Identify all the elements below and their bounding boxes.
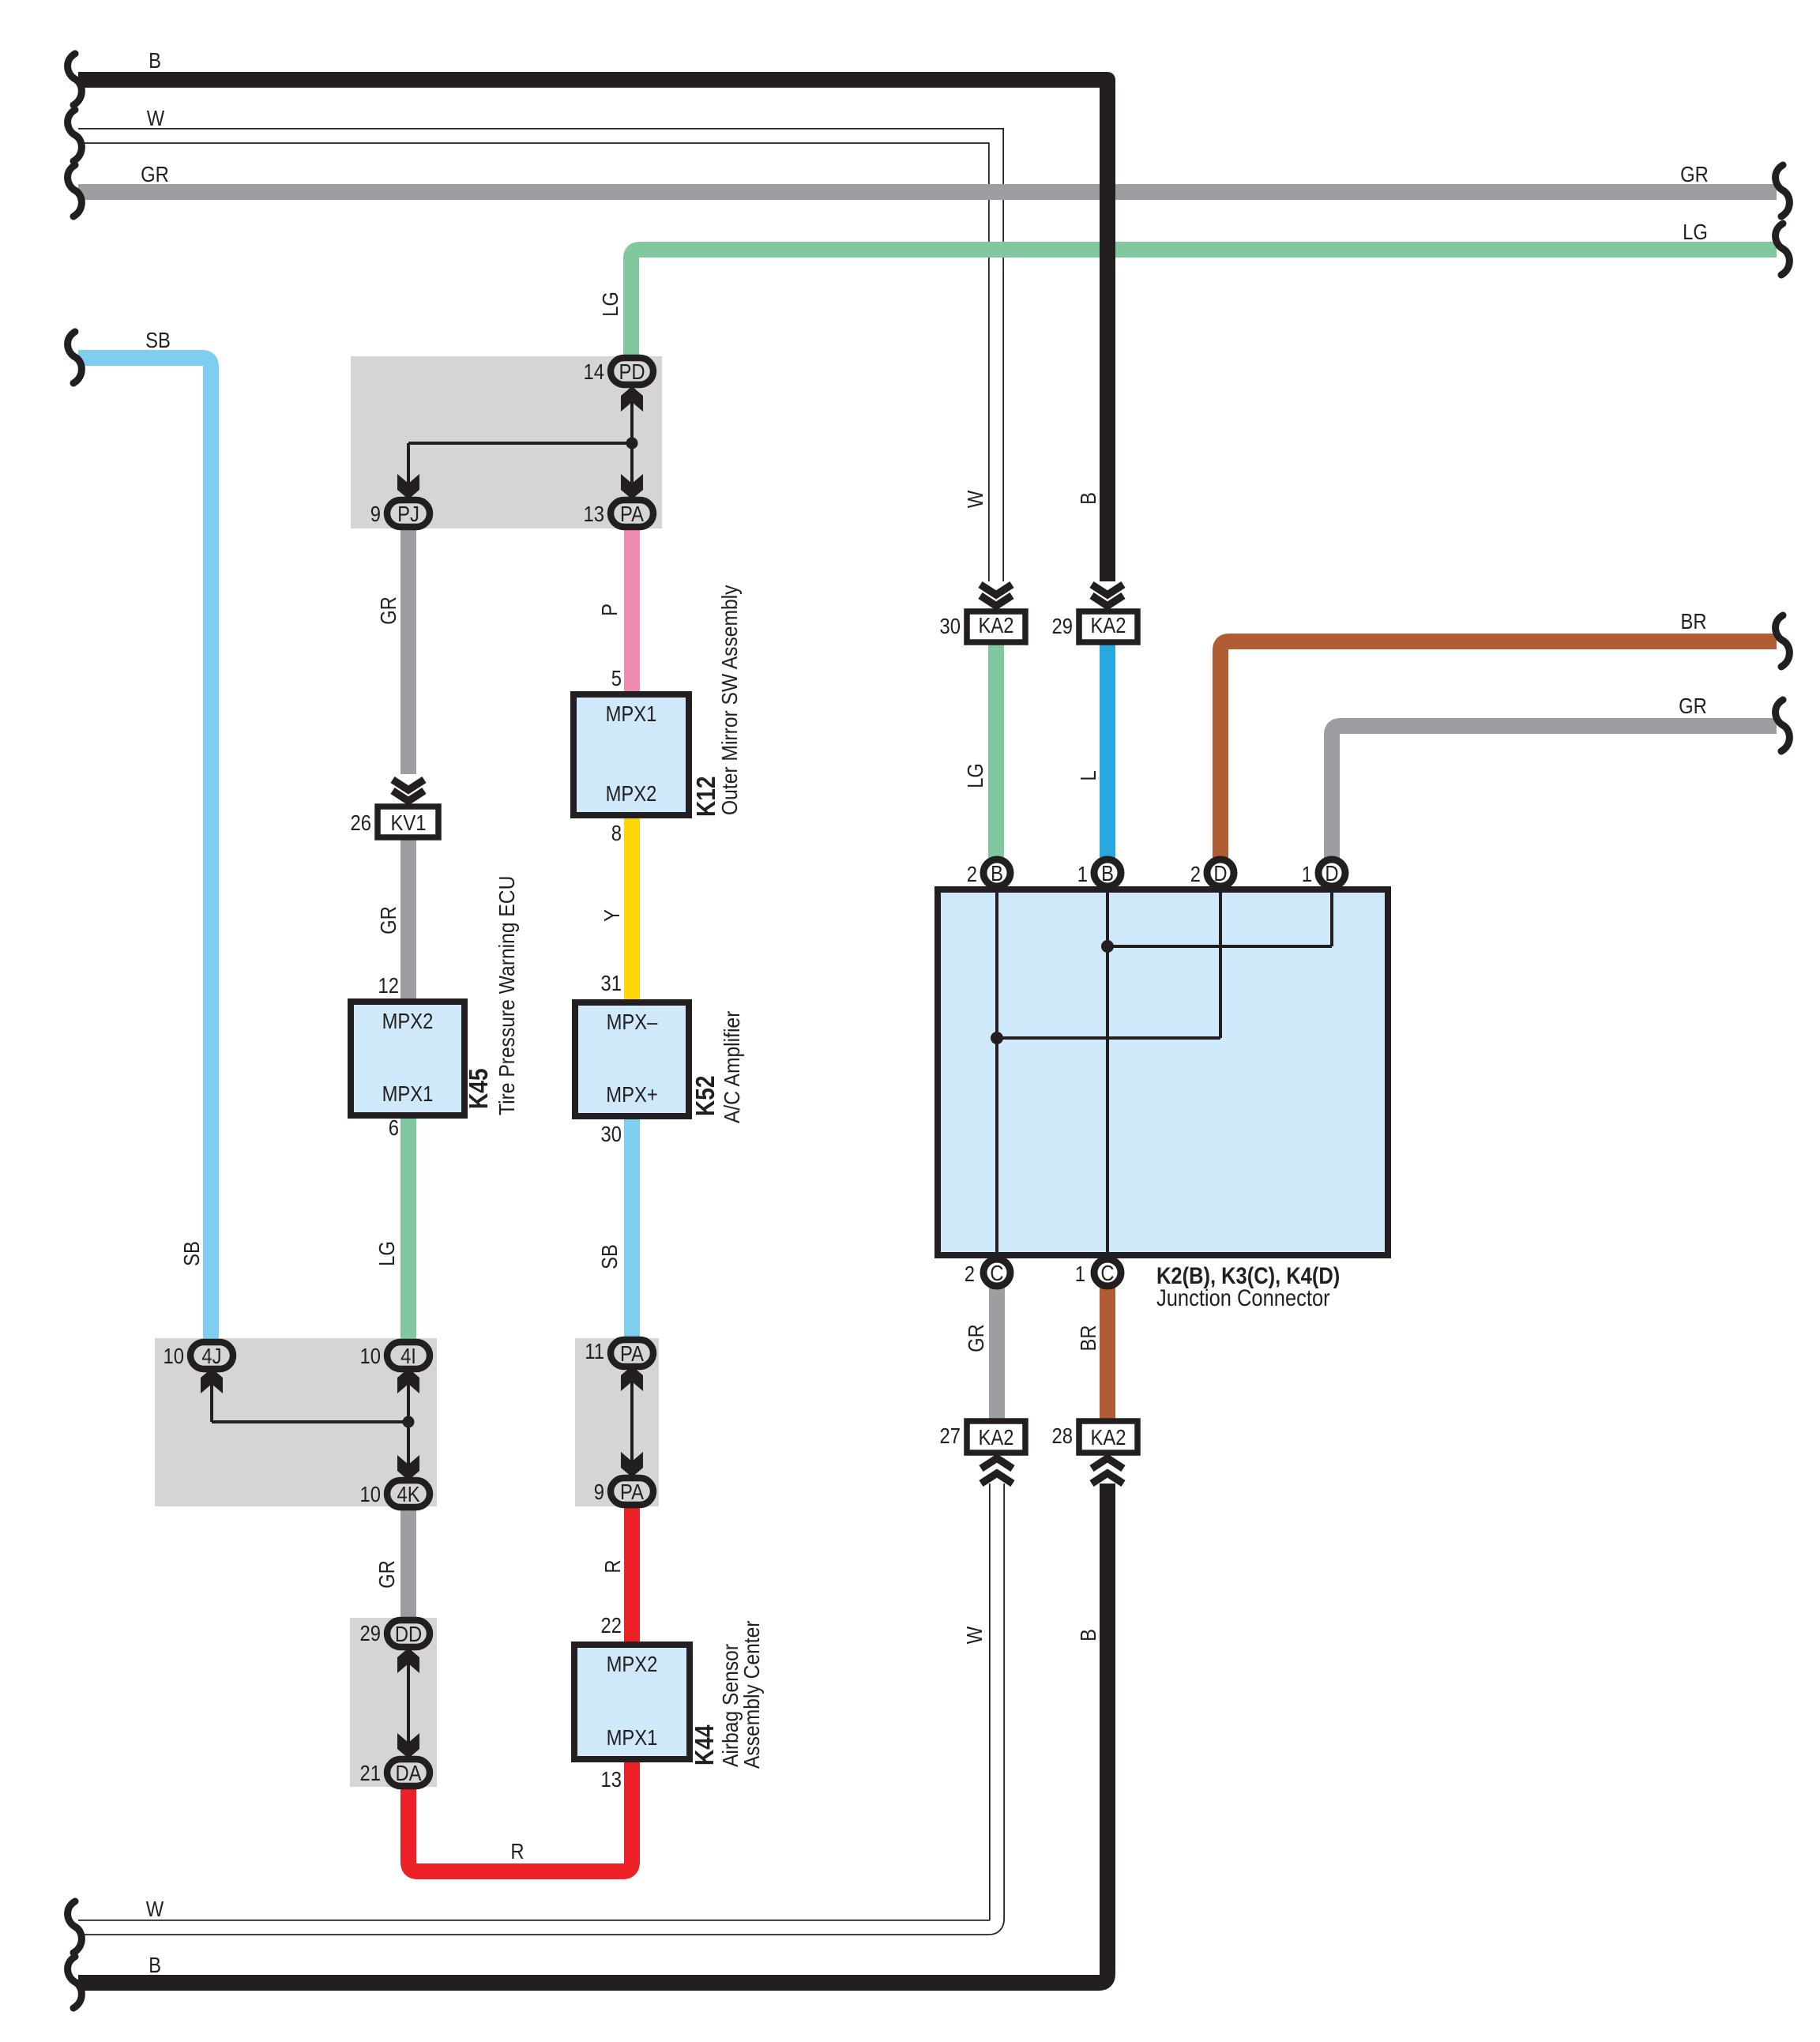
harness arrow (double chevron) out of KA2 pin 27 bbox=[981, 1458, 1013, 1484]
junction internal wire B1-D1 bbox=[1107, 945, 1332, 948]
svg-text:LG: LG bbox=[1683, 219, 1708, 244]
junction internal wire B2-D2 bbox=[997, 1036, 1220, 1040]
svg-text:4I: 4I bbox=[400, 1343, 416, 1368]
wire break symbol (GR top right) bbox=[1776, 165, 1790, 216]
svg-text:10: 10 bbox=[164, 1343, 184, 1368]
junction node at B2 branch bbox=[991, 1032, 1003, 1044]
svg-text:R: R bbox=[600, 1559, 625, 1573]
connector DA oval bbox=[387, 1759, 430, 1786]
harness arrow (double chevron) into KV1 pin 26 bbox=[393, 780, 424, 801]
svg-text:KA2: KA2 bbox=[979, 1424, 1014, 1450]
wire Y from K12 pin 8 to K52 pin 31 bbox=[624, 815, 640, 1006]
svg-text:R: R bbox=[510, 1838, 524, 1863]
arrow into 4J bbox=[201, 1368, 223, 1393]
connector KA2 box (pin 29) bbox=[1079, 611, 1137, 642]
svg-text:C: C bbox=[990, 1260, 1003, 1285]
shield ground line 4J-4I-4K bbox=[212, 1382, 408, 1466]
shield box (gray) around PD/PJ/PA connectors bbox=[351, 356, 662, 528]
connector DD oval bbox=[387, 1620, 430, 1647]
svg-text:A/C Amplifier: A/C Amplifier bbox=[720, 1010, 745, 1123]
svg-text:31: 31 bbox=[601, 970, 622, 995]
svg-text:SB: SB bbox=[179, 1241, 204, 1266]
shield box (gray) around 4J/4I/4K connectors bbox=[155, 1338, 437, 1506]
svg-text:29: 29 bbox=[1052, 613, 1073, 638]
svg-text:SB: SB bbox=[596, 1244, 622, 1269]
wire GR from 4K pin 10 to DD pin 29 bbox=[400, 1506, 416, 1622]
shield ground line DD-DA bbox=[407, 1660, 410, 1744]
wire BR from junction C pin 1 to KA2 pin 28 bbox=[1100, 1288, 1115, 1422]
wire BR from right break to junction D pin 2 bbox=[1220, 641, 1777, 858]
shield ground line PD-PJ-PA bbox=[408, 399, 632, 486]
svg-text:13: 13 bbox=[584, 501, 604, 526]
svg-text:GR: GR bbox=[141, 161, 169, 186]
svg-text:29: 29 bbox=[360, 1620, 381, 1645]
svg-text:DA: DA bbox=[395, 1760, 422, 1785]
wire LG from KA2 pin 30 to junction B pin 2 bbox=[988, 641, 1004, 858]
connector KV1 box bbox=[378, 807, 438, 837]
svg-text:Junction Connector: Junction Connector bbox=[1156, 1284, 1330, 1311]
junction pin circle D2 bbox=[1207, 859, 1234, 886]
svg-text:MPX1: MPX1 bbox=[382, 1081, 434, 1106]
svg-text:GR: GR bbox=[375, 906, 400, 935]
junction pin circle B2 bbox=[983, 859, 1010, 886]
connector PJ oval bbox=[387, 500, 430, 527]
connector PD oval bbox=[611, 358, 653, 385]
svg-text:GR: GR bbox=[963, 1324, 988, 1352]
svg-text:D: D bbox=[1213, 860, 1227, 886]
svg-text:Outer Mirror SW Assembly: Outer Mirror SW Assembly bbox=[717, 585, 743, 815]
svg-text:W: W bbox=[146, 1896, 164, 1921]
wire GR from right break to junction D pin 1 bbox=[1332, 726, 1777, 858]
svg-text:PD: PD bbox=[619, 359, 645, 384]
svg-text:LG: LG bbox=[597, 291, 622, 317]
wire P from PA pin 13 to K12 pin 5 bbox=[624, 525, 640, 698]
svg-text:14: 14 bbox=[584, 359, 604, 384]
svg-text:B: B bbox=[1075, 1629, 1100, 1641]
svg-text:1: 1 bbox=[1075, 1261, 1085, 1286]
wire GR (top trunk) bbox=[78, 184, 1777, 200]
shield box (gray) around DD/DA connectors bbox=[350, 1618, 437, 1787]
svg-text:MPX1: MPX1 bbox=[607, 1724, 658, 1750]
arrow into PA pin 9 bbox=[621, 1452, 643, 1477]
harness arrow (double chevron) out of KA2 pin 28 bbox=[1092, 1458, 1123, 1484]
wire break symbol (B top left) bbox=[68, 54, 82, 105]
svg-text:21: 21 bbox=[360, 1760, 381, 1785]
svg-text:30: 30 bbox=[940, 613, 961, 638]
svg-text:2: 2 bbox=[1190, 861, 1201, 886]
svg-text:MPX+: MPX+ bbox=[606, 1081, 657, 1107]
connector PA oval (pin 13) bbox=[611, 500, 653, 527]
wire B (top trunk, black): horizontal then down to KA2 pin 29 bbox=[78, 80, 1107, 581]
shield ground line PA11-PA9 bbox=[630, 1380, 634, 1463]
wire B (bottom trunk, black): from KA2 pin 28 down then left bbox=[78, 1484, 1107, 1983]
svg-text:MPX–: MPX– bbox=[607, 1009, 658, 1034]
arrow into 4I bbox=[397, 1368, 419, 1393]
wire GR from PJ pin 9 to KV1 pin 26 bbox=[400, 525, 416, 774]
svg-text:10: 10 bbox=[360, 1343, 381, 1368]
svg-text:1: 1 bbox=[1302, 861, 1312, 886]
svg-text:9: 9 bbox=[594, 1479, 604, 1504]
wire W (bottom trunk, white): from KA2 pin 27 down then left bbox=[78, 1484, 997, 1927]
connector KA2 box (pin 30) bbox=[967, 611, 1025, 642]
wire L from KA2 pin 29 to junction B pin 1 bbox=[1100, 641, 1115, 858]
wire break symbol (B bottom left) bbox=[68, 1957, 82, 2008]
svg-text:LG: LG bbox=[374, 1241, 399, 1266]
junction node on shield line (4I/4K) bbox=[403, 1416, 415, 1428]
wire break symbol (GR right lower) bbox=[1776, 700, 1790, 751]
junction pin circle C2 bbox=[983, 1259, 1010, 1286]
svg-text:GR: GR bbox=[1680, 161, 1709, 186]
svg-text:B: B bbox=[1101, 860, 1114, 886]
wire LG: from right break, left then down to PD pin 14 bbox=[631, 250, 1777, 359]
junction internal wire B1-C1 bbox=[1106, 889, 1109, 1255]
svg-text:B: B bbox=[1075, 492, 1100, 505]
connector 4J oval bbox=[190, 1342, 233, 1369]
svg-text:6: 6 bbox=[389, 1115, 399, 1140]
svg-text:8: 8 bbox=[611, 820, 622, 845]
svg-text:Tire Pressure Warning ECU: Tire Pressure Warning ECU bbox=[494, 876, 520, 1115]
svg-text:W: W bbox=[962, 490, 987, 508]
junction internal wire from D pin 2 bbox=[1219, 889, 1222, 1038]
ECU K12 Outer Mirror SW Assembly box bbox=[573, 694, 689, 815]
harness arrow (double chevron) into KA2 pin 29 bbox=[1092, 585, 1123, 606]
svg-text:L: L bbox=[1075, 770, 1100, 780]
harness arrow (double chevron) into KA2 pin 30 bbox=[980, 585, 1012, 606]
svg-text:27: 27 bbox=[940, 1423, 961, 1448]
wire R from PA pin 9 to K44 pin 22 bbox=[624, 1502, 640, 1648]
junction pin circle B1 bbox=[1094, 859, 1121, 886]
svg-text:B: B bbox=[149, 47, 161, 73]
svg-text:10: 10 bbox=[360, 1481, 381, 1506]
svg-text:BR: BR bbox=[1680, 608, 1706, 634]
arrow into PA pin 11 bbox=[621, 1366, 643, 1391]
ECU K44 Airbag Sensor Assembly Center box bbox=[574, 1645, 690, 1759]
svg-text:C: C bbox=[1100, 1260, 1114, 1285]
wire SB from K52 pin 30 to PA pin 11 bbox=[624, 1116, 640, 1341]
svg-text:30: 30 bbox=[601, 1121, 622, 1146]
svg-text:28: 28 bbox=[1052, 1423, 1073, 1448]
svg-text:P: P bbox=[596, 604, 622, 616]
wire GR from junction C pin 2 to KA2 pin 27 bbox=[989, 1288, 1005, 1422]
connector PA oval (pin 11) bbox=[611, 1340, 653, 1367]
wire GR from KV1 to K45 pin 12 bbox=[400, 837, 416, 1005]
svg-text:MPX2: MPX2 bbox=[382, 1008, 434, 1033]
wire SB: from left break down to 4J pin 10 bbox=[78, 358, 211, 1341]
svg-text:Y: Y bbox=[599, 909, 624, 922]
svg-text:D: D bbox=[1325, 860, 1338, 886]
svg-text:K44: K44 bbox=[690, 1725, 720, 1766]
svg-text:4K: 4K bbox=[397, 1481, 420, 1506]
svg-text:1: 1 bbox=[1077, 861, 1088, 886]
svg-text:B: B bbox=[149, 1952, 161, 1977]
junction internal wire B2-C2 bbox=[995, 889, 998, 1255]
connector KA2 box (pin 28) bbox=[1079, 1421, 1137, 1453]
junction connector K2(B),K3(C),K4(D) body bbox=[938, 889, 1388, 1255]
svg-text:KA2: KA2 bbox=[1091, 1424, 1126, 1450]
wire break symbol (GR top left) bbox=[68, 165, 82, 216]
svg-text:22: 22 bbox=[601, 1612, 622, 1638]
svg-text:4J: 4J bbox=[201, 1343, 221, 1368]
connector 4K oval bbox=[387, 1480, 430, 1507]
junction pin circle D1 bbox=[1318, 859, 1345, 886]
arrow into DA bbox=[397, 1733, 419, 1758]
svg-text:SB: SB bbox=[145, 327, 171, 352]
junction node at B1 branch bbox=[1101, 940, 1114, 953]
svg-text:2: 2 bbox=[967, 861, 977, 886]
svg-text:11: 11 bbox=[585, 1338, 604, 1363]
svg-text:5: 5 bbox=[611, 665, 622, 690]
shield box (gray) around PA(11)/PA(9) connectors bbox=[575, 1338, 659, 1506]
arrow into PA bbox=[621, 474, 643, 499]
wire LG from K45 pin 6 to 4I pin 10 bbox=[400, 1115, 416, 1343]
wire break symbol (W top left) bbox=[68, 110, 82, 161]
svg-text:BR: BR bbox=[1075, 1325, 1100, 1351]
svg-text:PJ: PJ bbox=[397, 501, 419, 526]
wire W (top trunk, white): horizontal then down to KA2 pin 30 bbox=[78, 136, 996, 581]
arrow into DD bbox=[397, 1648, 419, 1673]
svg-text:W: W bbox=[961, 1626, 987, 1644]
connector 4I oval bbox=[387, 1342, 430, 1369]
wire break symbol (BR right) bbox=[1776, 615, 1790, 667]
svg-text:PA: PA bbox=[620, 1341, 645, 1366]
svg-text:MPX1: MPX1 bbox=[606, 701, 657, 726]
svg-text:2: 2 bbox=[965, 1261, 975, 1286]
arrow into 4K bbox=[397, 1455, 419, 1480]
ECU K52 A/C Amplifier box bbox=[575, 1002, 689, 1116]
wire break symbol (LG right) bbox=[1776, 224, 1790, 275]
svg-text:26: 26 bbox=[351, 810, 371, 835]
svg-text:12: 12 bbox=[378, 972, 399, 998]
svg-text:13: 13 bbox=[601, 1766, 622, 1792]
wire break symbol (W bottom left) bbox=[68, 1901, 82, 1953]
svg-text:W: W bbox=[147, 105, 165, 130]
svg-text:K45: K45 bbox=[464, 1069, 494, 1109]
svg-text:PA: PA bbox=[620, 501, 645, 526]
arrow into PJ bbox=[397, 474, 419, 499]
svg-text:KA2: KA2 bbox=[1091, 612, 1126, 637]
wire R from DA pin 21 to K44 pin 13 bbox=[408, 1757, 632, 1871]
ECU K45 Tire Pressure Warning ECU box bbox=[351, 1002, 464, 1115]
svg-text:KA2: KA2 bbox=[979, 612, 1014, 637]
svg-text:KV1: KV1 bbox=[391, 810, 427, 835]
svg-text:K52: K52 bbox=[691, 1076, 720, 1116]
connector KA2 box (pin 27) bbox=[967, 1421, 1025, 1453]
svg-text:GR: GR bbox=[374, 1560, 399, 1589]
svg-text:LG: LG bbox=[962, 763, 987, 788]
connector PA oval (pin 9) bbox=[611, 1478, 653, 1505]
junction pin circle C1 bbox=[1094, 1259, 1121, 1286]
svg-text:GR: GR bbox=[375, 596, 400, 625]
svg-text:GR: GR bbox=[1679, 693, 1707, 718]
junction node on shield line (PD/PA) bbox=[626, 438, 638, 449]
svg-text:MPX2: MPX2 bbox=[606, 780, 657, 806]
svg-text:PA: PA bbox=[620, 1479, 645, 1504]
arrow into PD bbox=[621, 386, 643, 412]
svg-text:DD: DD bbox=[395, 1621, 422, 1646]
svg-text:B: B bbox=[991, 860, 1003, 886]
junction internal wire from D pin 1 bbox=[1330, 889, 1333, 946]
svg-text:MPX2: MPX2 bbox=[607, 1651, 658, 1676]
wire break symbol (SB left) bbox=[68, 332, 82, 383]
svg-text:9: 9 bbox=[370, 501, 381, 526]
svg-text:Assembly Center: Assembly Center bbox=[739, 1620, 765, 1769]
